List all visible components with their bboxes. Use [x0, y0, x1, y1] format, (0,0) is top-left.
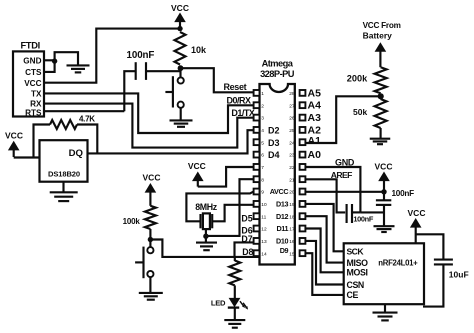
- svg-text:A5: A5: [308, 87, 322, 99]
- wire FTDI CTS to gnd net: [44, 52, 78, 72]
- wire VCC to 10uF cap: [416, 234, 444, 259]
- svg-text:GND: GND: [23, 56, 41, 65]
- svg-text:FTDI: FTDI: [21, 41, 40, 51]
- node 100k/button junction: [148, 237, 153, 242]
- wire cap left plate to FTDI RTS: [124, 71, 135, 111]
- wire pin22 GND: [305, 167, 360, 212]
- push-button SW1 actuator: [172, 76, 174, 107]
- svg-text:10: 10: [261, 202, 267, 208]
- svg-text:D10: D10: [276, 237, 288, 246]
- capacitor C 100nF reset plates: [135, 62, 137, 80]
- svg-text:Atmega: Atmega: [262, 59, 294, 69]
- sensor DS18B20 box: [40, 140, 88, 182]
- svg-text:A4: A4: [308, 100, 322, 112]
- svg-text:nRF24L01+: nRF24L01+: [378, 259, 418, 268]
- node AVCC junction: [381, 189, 386, 194]
- svg-text:Reset: Reset: [224, 82, 247, 92]
- svg-text:D9: D9: [280, 246, 289, 255]
- wire AVCC to cap: [383, 192, 385, 201]
- resistor R 100k: [145, 206, 156, 229]
- ground (100k button): [139, 292, 163, 294]
- svg-text:VCC: VCC: [143, 173, 161, 183]
- svg-text:5: 5: [261, 140, 264, 146]
- wire nRF gnd stem: [384, 304, 386, 312]
- IC U1 ATmega328P body: [260, 84, 295, 265]
- capacitor C 10uF plates: [434, 259, 453, 261]
- svg-text:RX: RX: [30, 100, 42, 109]
- wire LED to ground: [234, 308, 236, 320]
- svg-text:4.7K: 4.7K: [79, 115, 95, 124]
- svg-text:D11: D11: [276, 224, 288, 233]
- ground (LED): [224, 319, 245, 321]
- svg-text:16: 16: [289, 239, 295, 245]
- ground (divider): [380, 128, 382, 138]
- wire resistor to LED: [234, 285, 236, 298]
- wire D9 to CE: [305, 253, 343, 295]
- wire cap right plate to reset node: [146, 68, 180, 71]
- wire D12 to MISO: [305, 216, 343, 262]
- svg-text:21: 21: [289, 177, 295, 183]
- svg-text:7: 7: [261, 165, 264, 171]
- wire VCC to pin7: [198, 167, 254, 187]
- push-button SW1 top contact: [178, 77, 184, 83]
- wire D11 to MOSI: [305, 229, 343, 273]
- LED D1 cathode bar: [228, 306, 239, 308]
- resistor R 4.7K: [50, 120, 77, 129]
- wire DQ to D2 pin4: [88, 130, 254, 153]
- svg-text:VCC: VCC: [375, 162, 393, 172]
- svg-text:VCC: VCC: [24, 79, 41, 88]
- svg-text:328P-PU: 328P-PU: [260, 69, 295, 79]
- capacitor C 100nF AREF plates: [346, 204, 348, 223]
- ground (FTDI): [67, 64, 90, 66]
- VCC arrow (battery): [379, 50, 381, 67]
- resistor R 10k: [175, 32, 186, 65]
- wire divider to A1 pin24: [305, 96, 380, 143]
- svg-text:VCC: VCC: [5, 131, 23, 141]
- wire 4.7K left lead: [34, 125, 51, 158]
- svg-text:SCK: SCK: [347, 247, 365, 257]
- svg-text:26: 26: [289, 116, 295, 122]
- svg-text:200k: 200k: [347, 74, 368, 84]
- svg-text:RTS: RTS: [25, 109, 42, 118]
- svg-text:100nF: 100nF: [353, 215, 373, 224]
- wire node to D8/D7 rail: [150, 240, 259, 257]
- svg-text:A3: A3: [308, 112, 322, 124]
- ground (crystal): [205, 236, 207, 242]
- node VCC/10k junction: [177, 26, 182, 31]
- wire button2 to ground: [149, 277, 151, 292]
- svg-text:50k: 50k: [353, 107, 367, 117]
- svg-text:14: 14: [261, 251, 267, 257]
- svg-text:D0/RX: D0/RX: [227, 95, 252, 105]
- wire pin8 to crystal gnd: [206, 179, 254, 236]
- wire FTDI GND: [44, 59, 55, 61]
- svg-text:DQ: DQ: [69, 148, 84, 159]
- svg-text:28: 28: [289, 91, 295, 97]
- svg-text:VCC From: VCC From: [363, 21, 401, 30]
- wire AVCC cap to ground: [383, 205, 385, 226]
- push-button SW2 top contact: [149, 240, 151, 248]
- wire button to ground: [180, 108, 182, 120]
- wire VCC rail to FTDI VCC: [44, 29, 180, 83]
- svg-text:D13: D13: [276, 200, 288, 209]
- wire pin9 to crystal: [186, 192, 253, 222]
- svg-text:LED: LED: [211, 299, 226, 308]
- svg-text:12: 12: [261, 227, 267, 233]
- svg-text:8: 8: [261, 177, 264, 183]
- svg-text:27: 27: [289, 103, 295, 109]
- ground (DS18B20): [62, 182, 64, 192]
- IC U1 pin stubs: [254, 90, 260, 96]
- wire 10uF to nRF ground: [423, 264, 443, 306]
- resistor R 50k: [375, 99, 387, 128]
- svg-text:8MHz: 8MHz: [195, 202, 218, 212]
- wire pin20 AVCC: [305, 191, 384, 193]
- LED D1 triangle: [229, 298, 241, 307]
- svg-text:10uF: 10uF: [449, 270, 469, 280]
- svg-text:D2: D2: [268, 126, 280, 136]
- svg-text:4: 4: [261, 128, 264, 134]
- svg-text:19: 19: [289, 202, 295, 208]
- node divider junction: [378, 93, 384, 99]
- svg-text:CTS: CTS: [25, 68, 42, 77]
- VCC arrow (DS18B20): [13, 148, 15, 157]
- svg-text:MISO: MISO: [347, 258, 369, 268]
- wire VCC to DS18B20: [14, 156, 40, 158]
- VCC arrow (nRF): [415, 226, 417, 244]
- svg-text:A1: A1: [308, 135, 322, 147]
- svg-text:9: 9: [261, 190, 264, 196]
- crystal Y1 left plate: [199, 214, 201, 228]
- ground (nRF): [373, 312, 398, 314]
- svg-text:D12: D12: [276, 212, 288, 221]
- wire reset net to pin1: [180, 68, 254, 92]
- svg-text:100k: 100k: [123, 217, 141, 226]
- svg-text:100nF: 100nF: [392, 189, 415, 198]
- svg-text:15: 15: [289, 251, 295, 257]
- svg-text:D1/TX: D1/TX: [231, 108, 255, 118]
- svg-text:1: 1: [261, 91, 264, 97]
- svg-text:10k: 10k: [191, 45, 207, 55]
- svg-text:20: 20: [289, 190, 295, 196]
- connector FTDI box: [13, 51, 44, 116]
- svg-text:D3: D3: [268, 138, 280, 148]
- svg-text:25: 25: [289, 128, 295, 134]
- resistor R 200k: [375, 67, 387, 93]
- wire AREF cap to gnd net: [352, 211, 360, 213]
- wire 100k to node: [149, 229, 151, 240]
- svg-text:17: 17: [289, 227, 295, 233]
- node crystal ground junction: [203, 234, 208, 239]
- svg-text:MOSI: MOSI: [347, 268, 368, 278]
- wire reset node to button: [179, 68, 181, 77]
- svg-text:23: 23: [289, 153, 295, 159]
- wire 4.7K right lead: [77, 125, 97, 154]
- svg-text:VCC: VCC: [408, 208, 426, 218]
- svg-text:11: 11: [261, 214, 266, 220]
- capacitor C 100nF AVCC plates: [376, 199, 391, 201]
- resistor R LED: [229, 261, 240, 286]
- ground (AVCC): [374, 225, 395, 227]
- svg-text:D4: D4: [268, 150, 280, 160]
- wire D10 to CSN: [305, 241, 343, 285]
- LED D1 emission arrows: [240, 301, 246, 307]
- node 10k/reset junction: [178, 65, 184, 71]
- svg-text:6: 6: [261, 153, 264, 159]
- push-button SW1 bottom contact: [178, 102, 184, 108]
- svg-text:2: 2: [261, 103, 264, 109]
- wire pin21 AREF: [305, 179, 345, 212]
- wire D7 branch to pin13: [235, 242, 254, 257]
- svg-text:VCC: VCC: [171, 3, 189, 13]
- push-button SW2 actuator: [142, 247, 144, 279]
- svg-text:DS18B20: DS18B20: [48, 170, 80, 179]
- svg-text:D5: D5: [241, 214, 252, 224]
- wire FTDI TX to D0/RX: [44, 93, 254, 133]
- svg-text:VCC: VCC: [188, 161, 206, 171]
- wire D13 to SCK: [305, 204, 343, 251]
- svg-text:TX: TX: [31, 90, 42, 99]
- VCC arrow (AVCC): [383, 179, 385, 192]
- svg-text:3: 3: [261, 116, 264, 122]
- svg-text:22: 22: [289, 165, 295, 171]
- crystal Y1 right plate: [211, 214, 213, 228]
- VCC arrow (100k): [149, 191, 151, 206]
- wire FTDI RTS: [44, 110, 124, 112]
- svg-text:A0: A0: [308, 149, 322, 161]
- node FTDI GND/CTS junction: [52, 58, 57, 63]
- radio nRF24L01+ box: [344, 243, 424, 304]
- svg-text:CSN: CSN: [347, 280, 364, 290]
- push-button SW2 bottom contact: [147, 271, 153, 277]
- crystal Y1 body: [203, 213, 210, 229]
- svg-text:CE: CE: [347, 290, 359, 300]
- svg-text:18: 18: [289, 214, 295, 220]
- svg-text:Battery: Battery: [363, 30, 393, 40]
- wire FTDI RX to D1/TX: [44, 104, 254, 148]
- wire crystal case to gnd: [205, 229, 207, 236]
- VCC arrow (crystal): [197, 179, 199, 187]
- svg-text:24: 24: [289, 140, 295, 146]
- ground (reset button): [170, 119, 193, 121]
- VCC arrow (top): [179, 20, 181, 29]
- wire crystal to pin10: [212, 205, 253, 222]
- svg-text:100nF: 100nF: [127, 50, 155, 61]
- wire rail to LED resistor: [234, 257, 236, 261]
- svg-text:D8: D8: [242, 247, 253, 257]
- svg-text:AVCC: AVCC: [270, 187, 289, 196]
- svg-text:13: 13: [261, 239, 267, 245]
